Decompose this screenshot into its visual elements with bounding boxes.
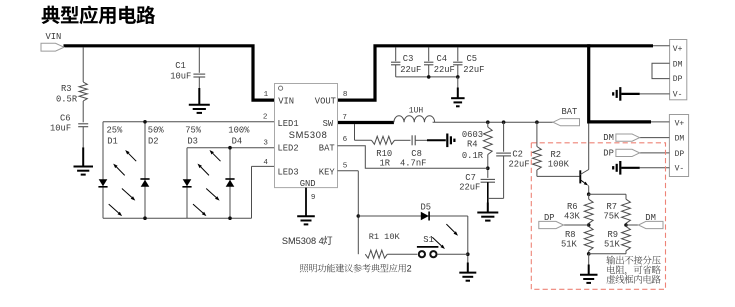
- svg-text:V+: V+: [675, 119, 685, 128]
- svg-text:R3: R3: [61, 84, 72, 94]
- svg-text:C5: C5: [467, 54, 478, 64]
- svg-text:DM: DM: [645, 213, 656, 223]
- svg-text:DM: DM: [675, 134, 685, 143]
- svg-text:V-: V-: [675, 165, 685, 174]
- svg-text:V+: V+: [673, 45, 683, 54]
- svg-text:43K: 43K: [564, 212, 581, 222]
- svg-text:DM: DM: [603, 133, 614, 143]
- svg-text:50%: 50%: [148, 126, 165, 136]
- svg-text:75%: 75%: [185, 126, 202, 136]
- svg-text:C7: C7: [465, 173, 476, 183]
- svg-text:0603: 0603: [462, 130, 483, 140]
- svg-text:0.5R: 0.5R: [56, 95, 78, 105]
- svg-text:R10: R10: [376, 149, 392, 159]
- svg-text:75K: 75K: [604, 212, 621, 222]
- svg-text:D1: D1: [107, 136, 118, 146]
- svg-text:10uF: 10uF: [50, 124, 71, 134]
- svg-text:100%: 100%: [228, 126, 250, 136]
- svg-text:3: 3: [263, 140, 268, 148]
- svg-text:C1: C1: [175, 61, 186, 71]
- svg-text:2: 2: [263, 114, 268, 122]
- svg-text:BAT: BAT: [562, 107, 578, 117]
- svg-text:C4: C4: [437, 54, 448, 64]
- svg-text:LED3: LED3: [278, 167, 299, 177]
- svg-text:VIN: VIN: [46, 32, 62, 42]
- svg-text:22uF: 22uF: [509, 160, 530, 170]
- svg-text:1UH: 1UH: [409, 107, 424, 116]
- svg-text:2: 2: [407, 264, 412, 274]
- svg-text:VIN: VIN: [278, 96, 294, 106]
- svg-text:LED1: LED1: [278, 119, 299, 129]
- svg-text:SM5308: SM5308: [289, 130, 328, 140]
- svg-text:DP: DP: [675, 150, 685, 159]
- svg-text:25%: 25%: [107, 126, 124, 136]
- svg-text:51K: 51K: [561, 240, 578, 250]
- svg-text:R9: R9: [608, 230, 619, 240]
- svg-text:DP: DP: [544, 213, 555, 223]
- svg-text:KEY: KEY: [319, 167, 336, 177]
- svg-text:SW: SW: [323, 119, 334, 129]
- svg-text:DP: DP: [673, 75, 683, 84]
- svg-text:LED2: LED2: [278, 143, 299, 153]
- svg-text:5: 5: [343, 162, 348, 170]
- svg-text:R8: R8: [565, 230, 576, 240]
- svg-text:D3: D3: [187, 136, 198, 146]
- svg-text:4: 4: [263, 159, 268, 167]
- svg-text:22uF: 22uF: [400, 65, 421, 75]
- svg-text:0.1R: 0.1R: [462, 151, 484, 161]
- svg-text:22uF: 22uF: [463, 65, 484, 75]
- svg-text:51K: 51K: [604, 240, 621, 250]
- svg-text:7: 7: [342, 114, 347, 122]
- svg-text:S1: S1: [423, 235, 434, 245]
- svg-text:D2: D2: [148, 136, 159, 146]
- svg-text:V-: V-: [673, 90, 683, 99]
- svg-text:SM5308 4: SM5308 4: [282, 236, 324, 246]
- svg-text:C3: C3: [403, 54, 414, 64]
- svg-text:6: 6: [343, 136, 348, 144]
- svg-text:BAT: BAT: [319, 143, 335, 153]
- svg-text:100K: 100K: [548, 159, 570, 169]
- svg-text:1R: 1R: [380, 158, 391, 168]
- svg-text:10uF: 10uF: [170, 72, 191, 82]
- svg-text:22uF: 22uF: [434, 65, 455, 75]
- svg-text:R4: R4: [467, 140, 478, 150]
- svg-text:C8: C8: [411, 149, 422, 159]
- svg-text:R1 10K: R1 10K: [369, 232, 401, 242]
- svg-text:8: 8: [343, 91, 348, 99]
- svg-text:D5: D5: [421, 202, 432, 212]
- svg-text:9: 9: [311, 194, 316, 202]
- svg-text:DM: DM: [673, 60, 683, 69]
- svg-text:DP: DP: [603, 148, 614, 158]
- svg-text:1: 1: [264, 91, 269, 99]
- svg-text:GND: GND: [300, 179, 316, 189]
- svg-text:D4: D4: [232, 136, 243, 146]
- svg-text:VOUT: VOUT: [315, 96, 336, 106]
- svg-text:C2: C2: [512, 150, 523, 160]
- svg-text:4.7nF: 4.7nF: [400, 158, 426, 168]
- svg-text:22uF: 22uF: [459, 183, 480, 193]
- svg-text:C6: C6: [60, 114, 71, 124]
